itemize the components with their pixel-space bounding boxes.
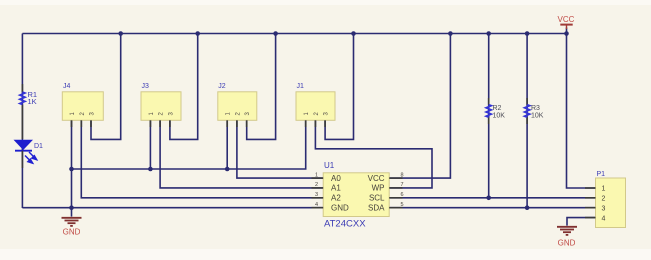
svg-text:A0: A0 xyxy=(331,174,341,183)
connector J4 xyxy=(62,83,103,127)
svg-text:U1: U1 xyxy=(324,161,335,170)
wire R2 pullup vertical xyxy=(488,34,490,198)
node SCL R2 xyxy=(486,196,491,201)
node rail J1 xyxy=(351,31,356,36)
node SDA R3 xyxy=(525,205,530,210)
wire P1 pin4 to GND xyxy=(567,218,596,226)
pin 5 SDA xyxy=(389,207,402,209)
svg-text:J3: J3 xyxy=(142,83,150,90)
svg-text:2: 2 xyxy=(315,182,318,188)
wire SDA (U1 pin5 to P1 pin3) xyxy=(389,207,595,209)
svg-text:GND: GND xyxy=(63,228,81,237)
svg-text:A1: A1 xyxy=(331,184,341,193)
pin 7 WP xyxy=(389,187,402,189)
wire J3 pin1 drop xyxy=(149,120,151,169)
resistor R1 xyxy=(20,84,37,139)
svg-text:D1: D1 xyxy=(34,143,43,150)
node rail J4 xyxy=(118,31,123,36)
wire J4 pin3 riser to rail xyxy=(91,34,121,140)
svg-text:VCC: VCC xyxy=(558,15,575,24)
svg-text:R2: R2 xyxy=(493,105,502,112)
node rail R3 xyxy=(525,31,530,36)
LED D1 xyxy=(14,140,44,168)
svg-text:2: 2 xyxy=(602,196,606,203)
pin 1 A0 xyxy=(312,177,324,179)
svg-text:1: 1 xyxy=(602,186,606,193)
pin 6 SCL xyxy=(389,197,402,199)
wire left branch vertical (rail to R1/D1) xyxy=(21,34,23,209)
node pin1 bus J2 xyxy=(225,167,230,172)
svg-text:3: 3 xyxy=(315,192,318,198)
svg-text:GND: GND xyxy=(558,238,576,247)
wire VCC top rail xyxy=(22,33,566,35)
svg-text:SDA: SDA xyxy=(368,203,385,212)
node rail VCC port xyxy=(564,31,569,36)
wire R3 pullup vertical xyxy=(526,34,528,208)
wire J2 pin3 riser to rail xyxy=(247,34,276,140)
pin 3 A2 xyxy=(312,197,324,199)
ground left xyxy=(62,218,82,237)
svg-text:3: 3 xyxy=(602,205,606,212)
svg-text:WP: WP xyxy=(372,184,385,193)
wire J1 pin2 to U1 WP xyxy=(315,120,432,188)
node GND junction xyxy=(69,205,74,210)
connector J3 xyxy=(141,83,181,127)
svg-text:1: 1 xyxy=(315,172,318,178)
svg-text:A2: A2 xyxy=(331,194,341,203)
wire U1 VCC pin8 riser to rail xyxy=(389,34,450,179)
pin 8 VCC xyxy=(389,177,402,179)
power port VCC xyxy=(558,15,575,29)
wire connector pin1 bus xyxy=(72,120,306,169)
wire J4 pin1 to GND vertical xyxy=(71,120,73,216)
svg-text:5: 5 xyxy=(400,202,403,208)
wire J4 pin2 to A2 xyxy=(81,120,323,198)
connector J1 xyxy=(296,83,335,127)
node rail U1 VCC xyxy=(448,31,453,36)
svg-text:J1: J1 xyxy=(297,83,305,90)
pin 2 A1 xyxy=(312,187,324,189)
resistor R3 xyxy=(525,98,544,124)
wire J1 pin3 riser to rail xyxy=(325,34,353,140)
connector P1 xyxy=(585,171,626,228)
svg-text:10K: 10K xyxy=(493,113,506,120)
svg-text:AT24CXX: AT24CXX xyxy=(324,218,366,229)
pin 4 GND xyxy=(312,207,324,209)
svg-text:1K: 1K xyxy=(28,97,37,106)
connector J2 xyxy=(218,83,257,127)
wire SCL (U1 pin6 to P1 pin2) xyxy=(389,197,595,199)
wire GND bus (D1 cathode to U1 pin4 GND) xyxy=(22,207,323,209)
svg-text:VCC: VCC xyxy=(368,174,385,183)
svg-text:P1: P1 xyxy=(597,171,606,178)
node rail J3 xyxy=(195,31,200,36)
node pin1 bus J4 xyxy=(69,167,74,172)
wire VCC to P1 pin1 xyxy=(567,28,596,189)
svg-text:7: 7 xyxy=(400,182,403,188)
node rail J2 xyxy=(273,31,278,36)
resistor R2 xyxy=(486,98,505,124)
svg-text:GND: GND xyxy=(331,203,349,212)
svg-text:4: 4 xyxy=(602,215,606,222)
node rail R2 xyxy=(486,31,491,36)
svg-text:10K: 10K xyxy=(531,113,544,120)
svg-text:J4: J4 xyxy=(63,83,71,90)
wire J3 pin3 riser to rail xyxy=(170,34,198,140)
wire J2 pin1 drop xyxy=(226,120,228,169)
wire J3 pin2 to A1 xyxy=(160,120,323,188)
svg-text:SCL: SCL xyxy=(369,194,385,203)
svg-text:4: 4 xyxy=(315,202,318,208)
svg-text:J2: J2 xyxy=(218,83,226,90)
svg-text:R3: R3 xyxy=(531,105,540,112)
svg-text:6: 6 xyxy=(400,192,403,198)
svg-text:8: 8 xyxy=(400,172,403,178)
node pin1 bus J3 xyxy=(148,167,153,172)
wire J2 pin2 to A0 xyxy=(237,120,323,178)
ground right xyxy=(557,227,577,248)
op-amp U1 (AT24CXX EEPROM) xyxy=(312,161,404,229)
